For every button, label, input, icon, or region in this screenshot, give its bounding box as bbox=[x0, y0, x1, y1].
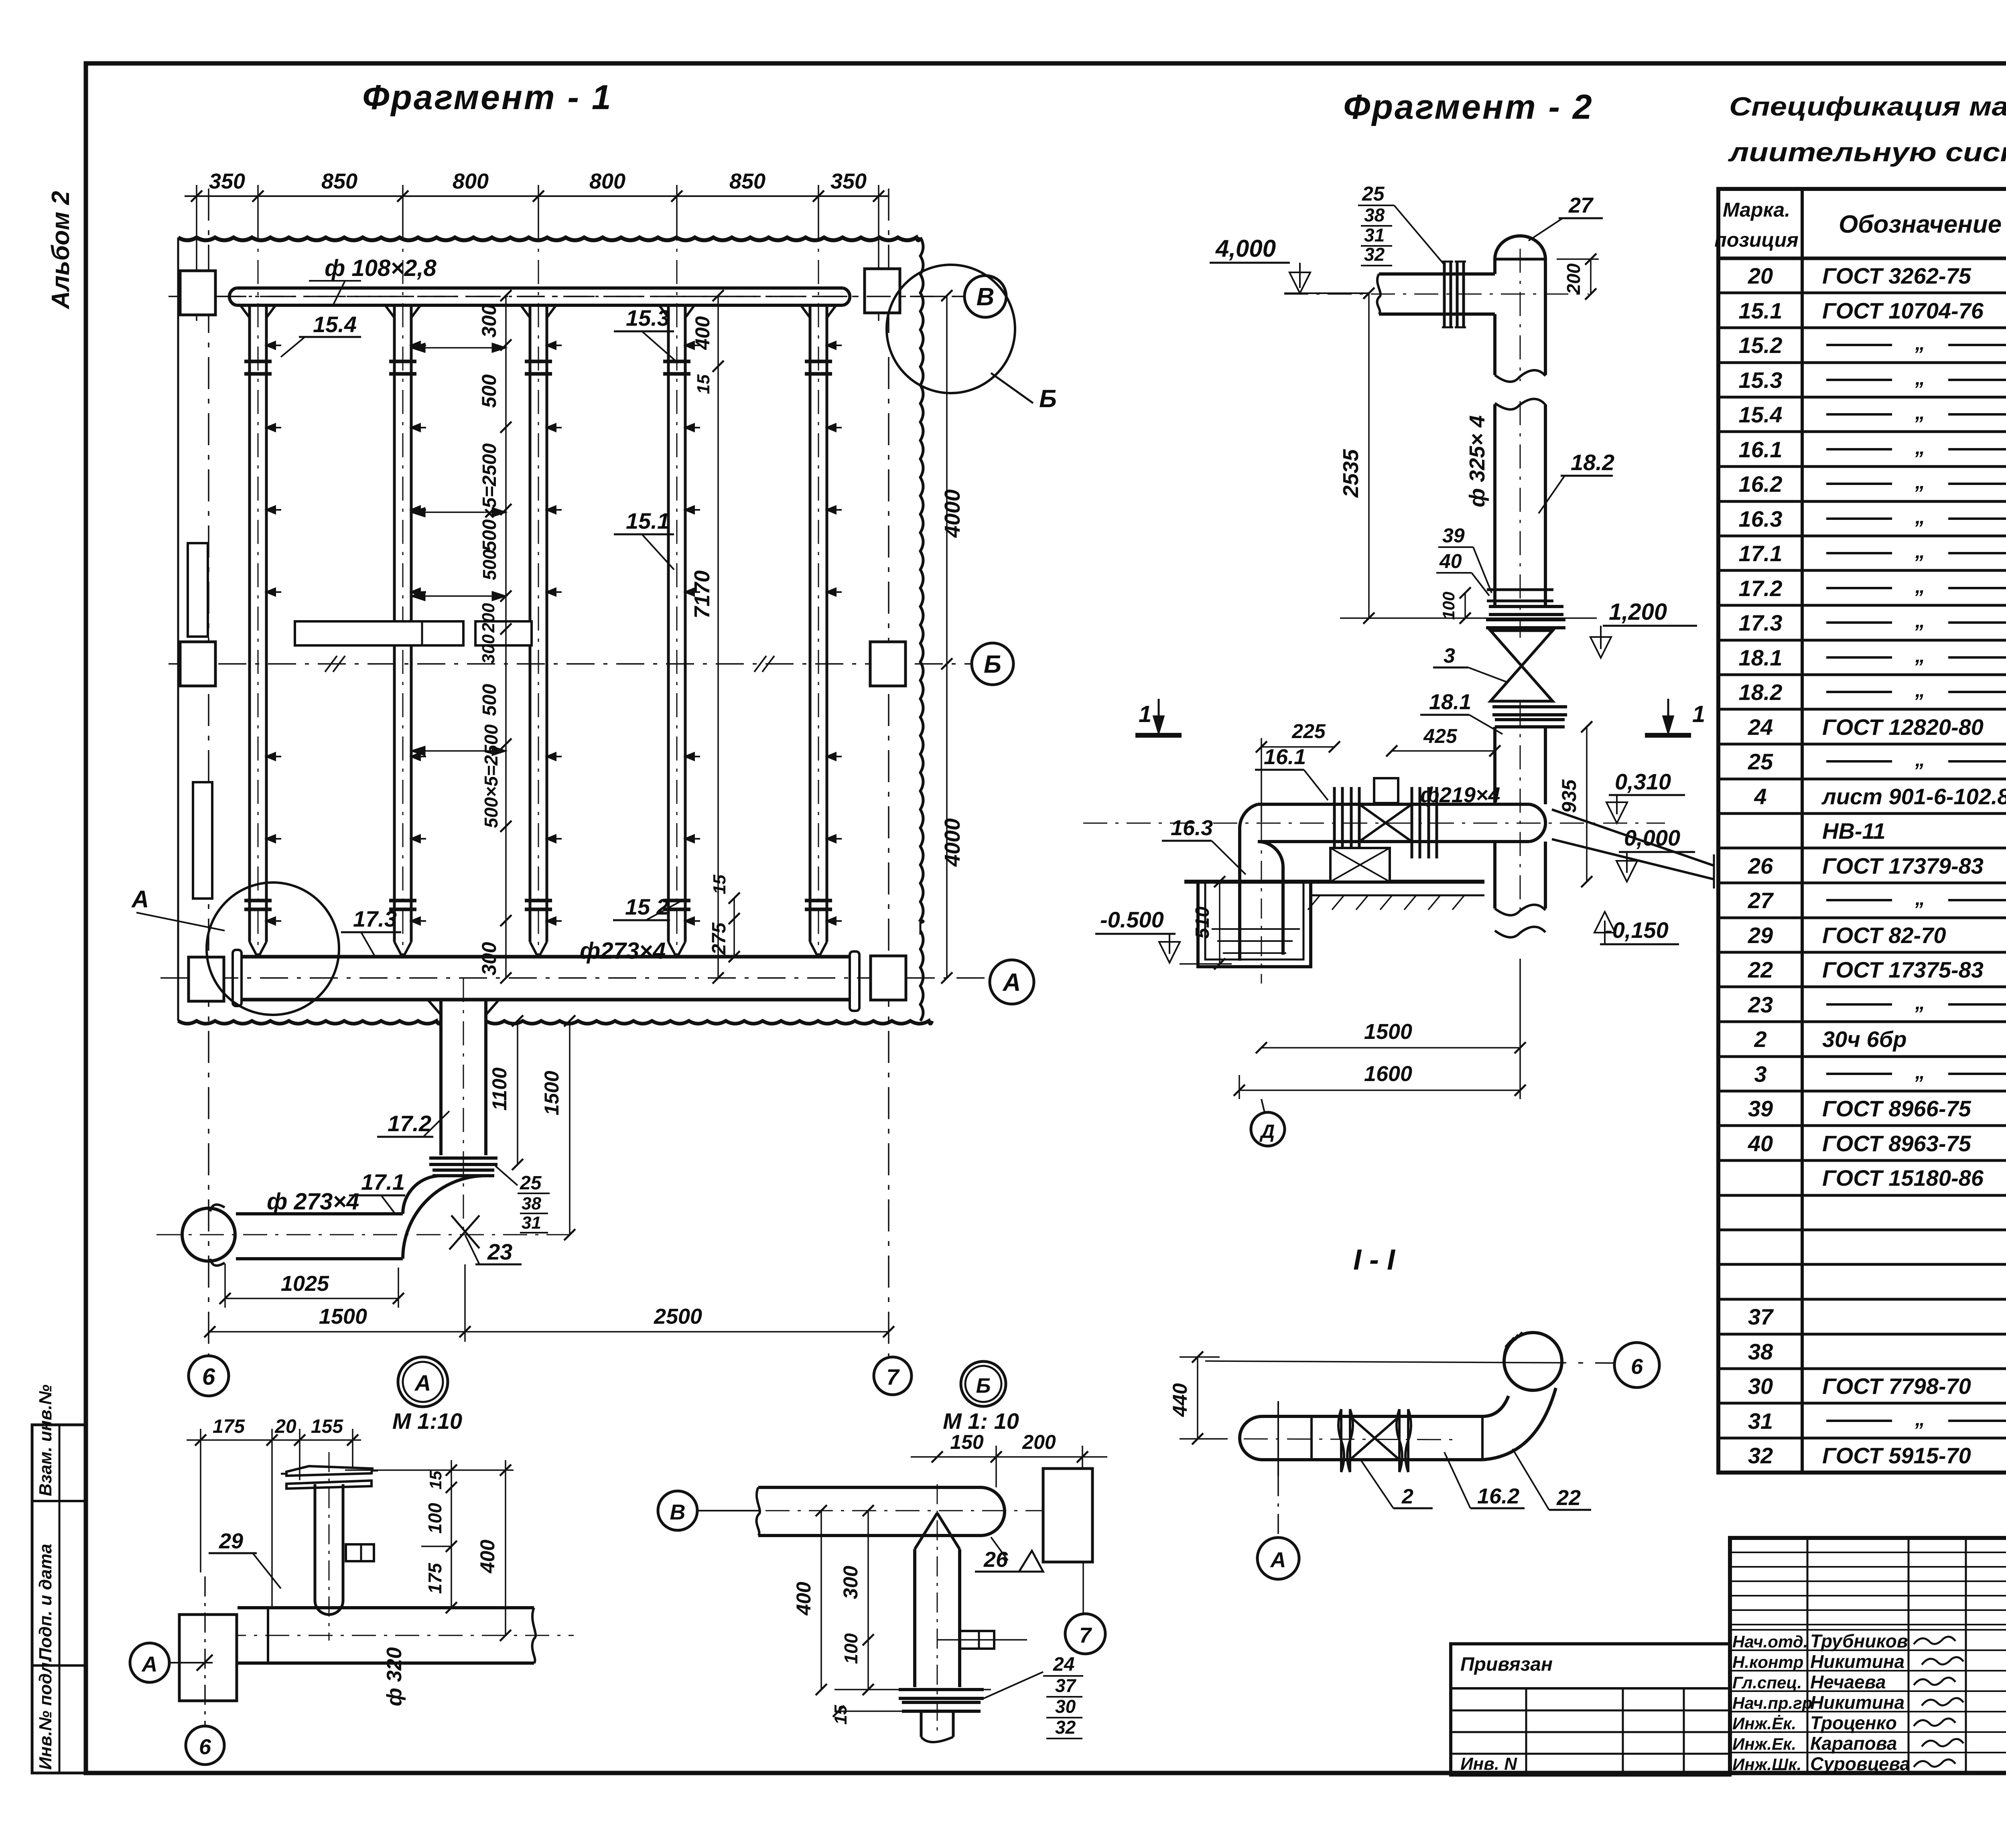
pedestal under valve bbox=[1330, 848, 1390, 882]
valve stem box bbox=[1374, 778, 1398, 803]
svg-text:1500: 1500 bbox=[540, 1071, 563, 1115]
detail circle A (bottom left) bbox=[207, 882, 339, 1015]
riser pipe 2 f108 bbox=[393, 305, 396, 942]
dim 275 and 15 near riser4 bbox=[733, 898, 735, 957]
svg-text:4000: 4000 bbox=[940, 489, 964, 538]
column at (2213,1655) bbox=[870, 642, 906, 686]
bubble B detail bottom bbox=[961, 1361, 1006, 1406]
svg-text:27: 27 bbox=[1748, 888, 1774, 913]
svg-text:26: 26 bbox=[1748, 853, 1773, 878]
svg-text:100: 100 bbox=[841, 1633, 861, 1664]
svg-text:37: 37 bbox=[1748, 1304, 1774, 1329]
svg-text:ГОСТ 3262-75: ГОСТ 3262-75 bbox=[1822, 263, 1971, 288]
svg-text:32: 32 bbox=[1055, 1717, 1076, 1738]
svg-text:18.1: 18.1 bbox=[1739, 645, 1783, 670]
svg-text:Инв.№ подл.: Инв.№ подл. bbox=[36, 1657, 55, 1770]
svg-text:ГОСТ 17375-83: ГОСТ 17375-83 bbox=[1822, 957, 1984, 982]
sec11 upper axis line to bubble 6 bbox=[1205, 1361, 1614, 1363]
column at (493,730) bbox=[180, 271, 215, 315]
svg-text:39: 39 bbox=[1442, 524, 1465, 547]
svg-text:0,310: 0,310 bbox=[1615, 769, 1671, 794]
svg-text:15: 15 bbox=[710, 874, 729, 894]
svg-text:3: 3 bbox=[1754, 1061, 1766, 1087]
svg-text:Трубников: Трубников bbox=[1810, 1631, 1908, 1651]
svg-text:510: 510 bbox=[1192, 907, 1213, 939]
detail A dim 400 bbox=[505, 1460, 506, 1635]
riser 3 upper flange pair bbox=[525, 360, 552, 363]
coupling mufta bbox=[1487, 588, 1553, 591]
svg-text:ГОСТ 15180-86: ГОСТ 15180-86 bbox=[1822, 1165, 1984, 1191]
run flanges + valve 2 bbox=[1334, 787, 1359, 858]
svg-text:Троценко: Троценко bbox=[1810, 1712, 1897, 1733]
sec11 bubble 6 bbox=[1614, 1343, 1659, 1388]
svg-text:100: 100 bbox=[424, 1503, 445, 1534]
sec11 pipe with cap bbox=[1262, 1415, 1482, 1418]
valve upper flanges bbox=[1486, 607, 1565, 628]
riser 3 nozzle arrows bbox=[547, 345, 562, 346]
svg-text:Привязан: Привязан bbox=[1460, 1654, 1553, 1675]
svg-text:ГОСТ 82-70: ГОСТ 82-70 bbox=[1822, 923, 1946, 948]
svg-text:Спецификация материалов на: Спецификация материалов на водораспреде- bbox=[1729, 91, 2006, 121]
svg-text:Подп. и дата: Подп. и дата bbox=[36, 1544, 55, 1661]
detail B header pipe bbox=[758, 1486, 981, 1489]
column at (2214,2438) bbox=[871, 956, 906, 1000]
svg-text:16.1: 16.1 bbox=[1739, 437, 1783, 462]
dim 510 rotated bbox=[1219, 882, 1220, 964]
svg-text:Альбом 2: Альбом 2 bbox=[47, 191, 75, 310]
svg-text:„: „ bbox=[1915, 367, 1925, 389]
svg-text:17.2: 17.2 bbox=[1739, 576, 1783, 601]
riser 2 lower flange pair bbox=[389, 899, 416, 903]
svg-text:„: „ bbox=[1915, 1061, 1925, 1083]
svg-text:6: 6 bbox=[199, 1735, 211, 1759]
signature row Инж.Шк. bbox=[1730, 1752, 2006, 1753]
svg-text:ГОСТ 5915-70: ГОСТ 5915-70 bbox=[1822, 1443, 1971, 1468]
svg-text:15: 15 bbox=[426, 1471, 445, 1489]
svg-text:1500: 1500 bbox=[319, 1304, 367, 1329]
svg-text:40: 40 bbox=[1439, 550, 1462, 572]
detail B dims 150/200 bbox=[911, 1456, 1107, 1458]
svg-text:400: 400 bbox=[691, 316, 714, 350]
sec11 flanges and valve bbox=[1338, 1409, 1353, 1472]
svg-text:Фрагмент - 2: Фрагмент - 2 bbox=[1343, 88, 1593, 126]
svg-text:100: 100 bbox=[1439, 592, 1458, 620]
svg-text:39: 39 bbox=[1748, 1096, 1773, 1121]
riser 1 nozzle arrows bbox=[266, 345, 281, 346]
svg-text:Б: Б bbox=[984, 651, 1001, 678]
detail A nozzle pipe bbox=[314, 1484, 317, 1601]
svg-text:-0.500: -0.500 bbox=[1100, 907, 1164, 932]
svg-text:2535: 2535 bbox=[1339, 449, 1363, 498]
signature row Н.контр bbox=[1730, 1649, 2006, 1651]
flange pair on feeder bbox=[1444, 262, 1464, 327]
svg-text:15.3: 15.3 bbox=[1739, 367, 1783, 393]
riser 1 upper flange pair bbox=[244, 360, 272, 363]
svg-text:17.1: 17.1 bbox=[361, 1169, 405, 1195]
riser 1 lower flange pair bbox=[244, 899, 272, 903]
outlet elbow down-left bbox=[403, 1176, 441, 1214]
svg-text:30: 30 bbox=[1055, 1696, 1076, 1717]
svg-text:I - I: I - I bbox=[1353, 1244, 1396, 1276]
tank inner bbox=[1205, 882, 1303, 959]
signature row Гл.спец. bbox=[1730, 1670, 2006, 1672]
svg-text:25: 25 bbox=[1748, 749, 1773, 774]
sec11 bell circle bbox=[1504, 1333, 1562, 1390]
svg-text:1025: 1025 bbox=[281, 1272, 329, 1296]
svg-text:31: 31 bbox=[522, 1213, 541, 1233]
riser 5 upper flange pair bbox=[805, 360, 832, 363]
svg-text:30: 30 bbox=[1748, 1373, 1773, 1399]
svg-text:4000: 4000 bbox=[940, 818, 964, 867]
collector left end flange bbox=[233, 950, 242, 1006]
svg-text:31: 31 bbox=[1748, 1408, 1773, 1434]
svg-text:„: „ bbox=[1915, 644, 1925, 667]
svg-text:4: 4 bbox=[1754, 784, 1766, 809]
collector right end flange bbox=[850, 951, 859, 1011]
svg-text:29: 29 bbox=[1748, 923, 1773, 948]
svg-text:„: „ bbox=[1915, 540, 1925, 562]
outlet flange pair bbox=[429, 1158, 497, 1176]
column at (493,1655) bbox=[180, 642, 215, 686]
grid bubble V bbox=[964, 276, 1006, 317]
sec11 valve cross bbox=[1350, 1416, 1399, 1460]
dim 1600 f2 bbox=[1239, 1089, 1520, 1091]
svg-text:440: 440 bbox=[1169, 1383, 1191, 1417]
svg-text:425: 425 bbox=[1423, 725, 1458, 747]
svg-text:175: 175 bbox=[213, 1416, 245, 1437]
svg-text:32: 32 bbox=[1748, 1443, 1773, 1468]
svg-text:500×5=2500: 500×5=2500 bbox=[479, 443, 500, 552]
svg-text:400: 400 bbox=[476, 1540, 499, 1574]
beams on axis B bbox=[295, 621, 463, 645]
detail B stub below flange bbox=[920, 1711, 923, 1737]
bell end bbox=[182, 1208, 235, 1261]
riser 4 nozzle arrows bbox=[685, 345, 700, 346]
svg-text:175: 175 bbox=[424, 1562, 445, 1594]
riser 2 upper flange pair bbox=[389, 360, 416, 363]
dim 200 at top bbox=[1590, 259, 1592, 294]
svg-text:„: „ bbox=[1915, 609, 1925, 632]
svg-text:Никитина: Никитина bbox=[1810, 1692, 1904, 1713]
svg-text:37: 37 bbox=[1055, 1675, 1077, 1696]
svg-text:1500: 1500 bbox=[1364, 1020, 1412, 1044]
svg-text:НВ-11: НВ-11 bbox=[1822, 818, 1886, 844]
sec11 bell hatched rim bbox=[1504, 1332, 1522, 1365]
svg-text:ГОСТ 8966-75: ГОСТ 8966-75 bbox=[1822, 1096, 1971, 1121]
valve cross on run bbox=[1359, 804, 1412, 842]
bubble D bbox=[1251, 1112, 1285, 1146]
svg-text:15.3: 15.3 bbox=[626, 305, 670, 331]
svg-text:Б: Б bbox=[976, 1374, 991, 1398]
riser 5 nozzle arrows bbox=[827, 345, 842, 346]
svg-text:1600: 1600 bbox=[1364, 1062, 1412, 1086]
detail A side nozzle bbox=[346, 1544, 374, 1561]
svg-text:3: 3 bbox=[1444, 644, 1455, 667]
sec11 grid line through pipe bbox=[1277, 1401, 1279, 1476]
svg-text:6: 6 bbox=[1631, 1355, 1643, 1379]
riser pipe 3 f108 bbox=[529, 305, 532, 942]
water line bbox=[1212, 928, 1300, 930]
svg-text:300: 300 bbox=[479, 634, 498, 664]
plan top wall (waved heavy line) bbox=[178, 237, 920, 240]
svg-text:15 2: 15 2 bbox=[625, 894, 669, 919]
svg-text:ф219×4: ф219×4 bbox=[1420, 783, 1500, 807]
svg-text:В: В bbox=[977, 283, 995, 311]
svg-text:38: 38 bbox=[1748, 1339, 1773, 1364]
water line bbox=[1217, 940, 1293, 942]
signature row Инж.&#278;к. bbox=[1730, 1711, 2006, 1712]
svg-text:Инж.Ėк.: Инж.Ėк. bbox=[1732, 1714, 1796, 1733]
detail circle B (top right) bbox=[887, 265, 1015, 393]
svg-text:Обозначение: Обозначение bbox=[1839, 211, 2002, 238]
svg-text:17.3: 17.3 bbox=[1739, 610, 1783, 635]
svg-text:16.1: 16.1 bbox=[1264, 745, 1306, 769]
sec11 bubble A bbox=[1257, 1538, 1299, 1579]
svg-text:40: 40 bbox=[1748, 1131, 1773, 1156]
svg-text:22: 22 bbox=[1556, 1486, 1581, 1510]
svg-text:4,000: 4,000 bbox=[1215, 235, 1276, 262]
svg-text:800: 800 bbox=[589, 169, 625, 193]
svg-text:ф 108×2,8: ф 108×2,8 bbox=[325, 255, 437, 281]
svg-text:22: 22 bbox=[1748, 957, 1773, 982]
bubble A detail bottom bbox=[398, 1357, 448, 1407]
plan right boundary (break) bbox=[920, 237, 923, 923]
svg-text:500×5=2500: 500×5=2500 bbox=[481, 724, 501, 828]
water line bbox=[1223, 952, 1286, 954]
dim 1500 / 2500 bottom bbox=[210, 1331, 889, 1333]
central vertical dim chain bbox=[505, 296, 507, 978]
svg-text:31: 31 bbox=[1364, 225, 1385, 245]
elbow up stub + cap dome 27 bbox=[1493, 259, 1496, 274]
svg-text:17.3: 17.3 bbox=[353, 906, 397, 931]
svg-text:500: 500 bbox=[479, 549, 500, 580]
svg-text:24: 24 bbox=[1053, 1654, 1074, 1675]
wall piers on left grid line bbox=[188, 543, 208, 637]
svg-text:15: 15 bbox=[694, 374, 713, 394]
riser top piece down to break bbox=[1493, 314, 1496, 375]
svg-text:25: 25 bbox=[1362, 183, 1385, 205]
tee outlet down from collector bbox=[439, 1000, 443, 1155]
svg-text:18.1: 18.1 bbox=[1429, 690, 1471, 714]
svg-text:15.2: 15.2 bbox=[1739, 333, 1783, 358]
collector pipe f273x4 bbox=[241, 955, 851, 959]
svg-text:М 1:10: М 1:10 bbox=[392, 1408, 462, 1434]
dim 1025 bbox=[225, 1298, 398, 1299]
plan bottom wall (waved) left part bbox=[178, 1021, 441, 1024]
svg-text:„: „ bbox=[1915, 401, 1925, 424]
sec11 dim 440 bbox=[1197, 1357, 1198, 1439]
svg-text:2: 2 bbox=[1754, 1026, 1766, 1052]
svg-text:16.3: 16.3 bbox=[1739, 506, 1783, 531]
left stamp strip bbox=[32, 1425, 86, 1773]
svg-text:„: „ bbox=[1915, 575, 1925, 597]
svg-text:лист 901-6-102.89: лист 901-6-102.89 bbox=[1821, 784, 2006, 809]
svg-text:38: 38 bbox=[522, 1194, 541, 1213]
svg-text:23: 23 bbox=[1748, 992, 1773, 1017]
svg-text:16.2: 16.2 bbox=[1739, 471, 1783, 497]
svg-text:23: 23 bbox=[487, 1239, 512, 1264]
svg-text:ф 325× 4: ф 325× 4 bbox=[1465, 415, 1489, 507]
svg-text:Б: Б bbox=[1039, 385, 1057, 413]
plan left boundary bbox=[177, 237, 179, 1021]
right vertical dim 4000 line bbox=[946, 296, 948, 978]
horizontal run f219 bbox=[1258, 803, 1529, 806]
svg-text:15.4: 15.4 bbox=[1739, 402, 1783, 427]
bubble 7 bottom bbox=[874, 1357, 912, 1395]
column at (2199,725) bbox=[865, 269, 900, 313]
dim 2535 rotated bbox=[1368, 293, 1370, 618]
svg-text:А: А bbox=[131, 886, 149, 913]
sec11 pipe centerline bbox=[1244, 1439, 1456, 1440]
svg-text:155: 155 bbox=[311, 1416, 343, 1437]
svg-text:225: 225 bbox=[1291, 720, 1326, 742]
svg-text:Карапова: Карапова bbox=[1810, 1733, 1897, 1754]
svg-text:20: 20 bbox=[274, 1416, 296, 1437]
detail B bubble 7 bbox=[1065, 1614, 1105, 1654]
stack 25/38/31 bbox=[495, 1166, 518, 1185]
riser 2 nozzle arrows bbox=[411, 345, 426, 346]
svg-text:позиция: позиция bbox=[1714, 229, 1798, 251]
crossing mark at elbow center bbox=[449, 1215, 479, 1250]
svg-text:Фрагмент - 1: Фрагмент - 1 bbox=[362, 78, 612, 117]
svg-text:32: 32 bbox=[1364, 244, 1385, 265]
svg-text:500: 500 bbox=[479, 684, 500, 716]
svg-text:1: 1 bbox=[1692, 701, 1705, 727]
detail B stack 24/37/30/32 bbox=[984, 1672, 1043, 1698]
detail A collector pipe f320 bbox=[238, 1606, 534, 1609]
svg-text:Гл.спец.: Гл.спец. bbox=[1732, 1673, 1802, 1692]
svg-text:А: А bbox=[414, 1370, 431, 1396]
riser pipe 5 f108 bbox=[809, 305, 812, 942]
svg-text:7170: 7170 bbox=[690, 570, 714, 619]
svg-text:935: 935 bbox=[1558, 779, 1580, 813]
svg-text:ГОСТ 17379-83: ГОСТ 17379-83 bbox=[1822, 853, 1984, 878]
detail A bubble A bbox=[130, 1643, 169, 1682]
svg-text:Д: Д bbox=[1259, 1121, 1275, 1142]
svg-text:Нач.пр.гр: Нач.пр.гр bbox=[1732, 1694, 1812, 1712]
svg-text:30ч 6бр: 30ч 6бр bbox=[1822, 1026, 1907, 1052]
detail A right dims 15/100/175 bbox=[451, 1460, 452, 1609]
detail A grid line + bubble 6 bbox=[204, 1576, 206, 1726]
detail A nozzle top flanges bbox=[286, 1466, 372, 1476]
svg-text:2: 2 bbox=[1401, 1485, 1413, 1508]
svg-text:1,200: 1,200 bbox=[1609, 599, 1667, 625]
dim 1100 rotated bbox=[517, 1021, 518, 1164]
svg-text:300: 300 bbox=[839, 1566, 862, 1599]
grid bubble B bbox=[972, 643, 1013, 685]
svg-text:800: 800 bbox=[453, 169, 489, 193]
svg-text:18.2: 18.2 bbox=[1571, 450, 1614, 475]
axis A horizontal bbox=[160, 977, 989, 979]
svg-text:ГОСТ 10704-76: ГОСТ 10704-76 bbox=[1822, 298, 1984, 323]
dim 100 bbox=[1464, 593, 1466, 618]
riser main piece f325x4 bbox=[1495, 399, 1545, 409]
svg-text:ф273×4: ф273×4 bbox=[580, 938, 666, 964]
bubble 6 bottom bbox=[189, 1356, 229, 1396]
riser 5 lower flange pair bbox=[805, 899, 832, 903]
riser pipe 1 f108 bbox=[248, 305, 251, 942]
svg-text:„: „ bbox=[1915, 748, 1925, 771]
svg-text:850: 850 bbox=[321, 169, 357, 193]
svg-text:Нечаева: Нечаева bbox=[1810, 1672, 1886, 1692]
svg-text:150: 150 bbox=[950, 1431, 984, 1453]
axis B horizontal bbox=[169, 663, 972, 665]
svg-text:ГОСТ 12820-80: ГОСТ 12820-80 bbox=[1822, 714, 1984, 740]
svg-text:Нач.отд.: Нач.отд. bbox=[1732, 1632, 1808, 1651]
svg-text:„: „ bbox=[1915, 679, 1925, 701]
svg-text:200: 200 bbox=[1563, 263, 1584, 294]
privyazan box bbox=[1451, 1644, 1730, 1775]
svg-text:ГОСТ 8963-75: ГОСТ 8963-75 bbox=[1822, 1131, 1971, 1156]
axis V horizontal bbox=[169, 296, 964, 297]
dim 400 right of riser4 bbox=[717, 296, 719, 978]
svg-text:27: 27 bbox=[1568, 193, 1594, 217]
svg-text:16.2: 16.2 bbox=[1477, 1484, 1519, 1508]
svg-text:15.1: 15.1 bbox=[626, 508, 670, 534]
svg-text:850: 850 bbox=[729, 169, 765, 193]
detail A dim line 175/20/155 bbox=[187, 1439, 361, 1441]
grid line 7 vertical bbox=[888, 189, 889, 1357]
tangential nozzle to tower bbox=[1552, 809, 1714, 866]
svg-text:Инв. N: Инв. N bbox=[1460, 1754, 1517, 1774]
detail B side nozzle bbox=[960, 1631, 994, 1649]
gate valve vertical (bowtie) bbox=[1490, 631, 1553, 701]
detail B column rect bbox=[1043, 1469, 1092, 1562]
svg-text:Инж.Ек.: Инж.Ек. bbox=[1732, 1734, 1796, 1753]
column at (514,2441) bbox=[189, 957, 224, 1001]
svg-text:Марка.: Марка. bbox=[1723, 199, 1790, 221]
dim 425 bbox=[1392, 750, 1495, 752]
svg-text:ГОСТ 7798-70: ГОСТ 7798-70 bbox=[1822, 1373, 1971, 1399]
grid bubble A right bbox=[990, 960, 1034, 1004]
svg-text:350: 350 bbox=[209, 169, 245, 193]
svg-text:275: 275 bbox=[709, 922, 730, 955]
svg-text:200: 200 bbox=[479, 603, 498, 633]
svg-text:350: 350 bbox=[830, 169, 867, 193]
dim 1500 f2 bbox=[1261, 1047, 1520, 1049]
svg-text:„: „ bbox=[1915, 436, 1925, 458]
riser pipe 4 f108 bbox=[667, 305, 670, 942]
sec11 elbow up to bell bbox=[1482, 1396, 1509, 1416]
detail B left dims 400/300/100/15 bbox=[820, 1511, 822, 1690]
svg-text:А: А bbox=[1002, 969, 1021, 996]
feeder pipe horizontal bbox=[1379, 272, 1495, 276]
outlet horizontal pipe f273 bbox=[236, 1212, 403, 1215]
svg-text:24: 24 bbox=[1748, 714, 1773, 740]
title block bbox=[1730, 1538, 2006, 1773]
outlet centerline vertical bbox=[463, 978, 464, 1235]
elbow down to tank bbox=[1240, 804, 1258, 829]
riser lower break bbox=[1493, 842, 1496, 909]
svg-text:300: 300 bbox=[478, 304, 500, 338]
top dimension chain 350-850-800-800-850-350 bbox=[185, 195, 889, 197]
svg-text:Суровцева: Суровцева bbox=[1810, 1753, 1910, 1774]
svg-text:„: „ bbox=[1915, 991, 1925, 1014]
svg-text:300: 300 bbox=[478, 942, 500, 976]
svg-text:2500: 2500 bbox=[654, 1304, 702, 1329]
riser 4 lower flange pair bbox=[663, 899, 690, 903]
svg-text:А: А bbox=[1270, 1548, 1286, 1572]
svg-text:18.2: 18.2 bbox=[1739, 680, 1783, 705]
detail B bubble V bbox=[658, 1491, 697, 1530]
svg-text:200: 200 bbox=[1022, 1431, 1056, 1453]
svg-text:В: В bbox=[670, 1500, 686, 1524]
riser 4 upper flange pair bbox=[663, 360, 690, 363]
svg-text:„: „ bbox=[1915, 887, 1925, 909]
axis B break marks bbox=[325, 656, 345, 672]
svg-text:Инж.Шк.: Инж.Шк. bbox=[1732, 1755, 1801, 1774]
grid line 6 vertical bbox=[208, 189, 209, 1355]
